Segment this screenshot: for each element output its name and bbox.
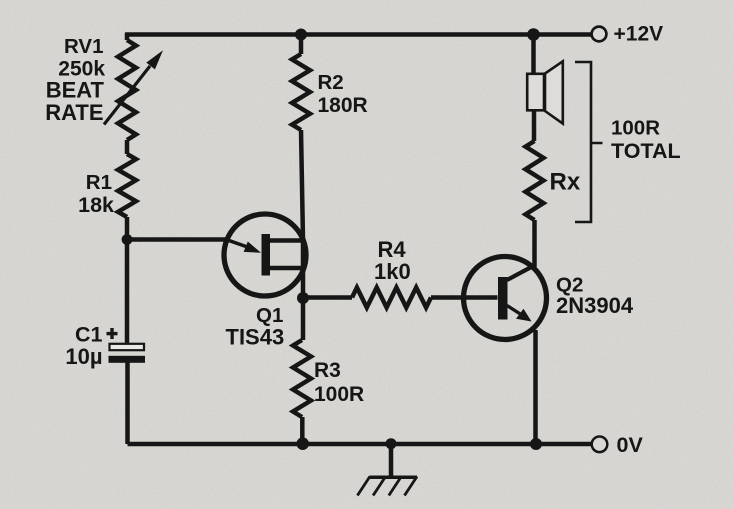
terminal 0V open circle: [592, 437, 608, 453]
svg-text:R1: R1: [86, 171, 112, 194]
resistor R2 zigzag: [292, 54, 310, 130]
wire between RV1 and R1: [125, 140, 130, 154]
wire R3 top stub: [301, 298, 306, 340]
svg-text:+12V: +12V: [614, 22, 664, 45]
node ground junction: [386, 438, 397, 449]
resistor R4 zigzag: [352, 288, 431, 308]
svg-text:180R: 180R: [318, 94, 368, 117]
terminal +12V open circle: [592, 27, 607, 42]
wire R1 to C1: [125, 217, 130, 344]
node A: Q1 base1 / R3 / R4 junction: [297, 292, 309, 304]
resistor R3 zigzag: [293, 340, 311, 417]
wire R3 bottom stub: [300, 417, 305, 444]
wire Q1 base1 lead: [270, 266, 304, 271]
node top rail speaker junction: [527, 28, 540, 41]
wire Q1 base2 lead: [270, 238, 304, 243]
svg-text:RV1: RV1: [64, 35, 104, 58]
node Q2 emitter rail junction: [530, 438, 542, 450]
svg-text:R2: R2: [318, 71, 344, 94]
wire R2 top stub: [299, 35, 304, 55]
svg-text:Rx: Rx: [550, 169, 581, 196]
ground symbol bar: [370, 476, 418, 480]
wire R2 down to node A: [301, 130, 303, 298]
wire Q1 emitter horizontal: [127, 237, 228, 242]
svg-text:10µ: 10µ: [65, 344, 102, 369]
svg-text:0V: 0V: [617, 433, 644, 457]
potentiometer RV1 zigzag: [118, 40, 136, 140]
transistor Q2 emitter arrowhead: [516, 309, 532, 322]
transistor Q2 base bar: [498, 277, 508, 320]
svg-text:R3: R3: [314, 359, 341, 382]
svg-text:RATE: RATE: [45, 100, 103, 125]
wire Q2 collector diagonal: [507, 265, 536, 281]
svg-text:1k0: 1k0: [374, 259, 411, 284]
svg-text:2N3904: 2N3904: [556, 293, 634, 318]
wire left column top corner: [125, 33, 130, 40]
wire bottom rail 0V: [128, 442, 592, 447]
svg-text:C1: C1: [75, 323, 103, 347]
node top rail R2 junction: [295, 29, 307, 41]
node R3 bottom rail junction: [296, 437, 309, 450]
svg-text:100R: 100R: [314, 383, 364, 406]
wire node A to R4: [303, 295, 352, 300]
wire Q2 emitter diagonal: [507, 306, 525, 318]
ground symbol hatches: [357, 477, 417, 496]
wire speaker branch top: [531, 35, 536, 76]
svg-text:TIS43: TIS43: [226, 325, 285, 350]
speaker LS1 driver rectangle: [527, 74, 544, 111]
wire Q1 emitter diagonal: [227, 240, 252, 249]
capacitor C1 polarity plus sign: [107, 332, 118, 335]
capacitor C1 plus plate (hollow): [110, 344, 145, 350]
wire ground stem: [389, 444, 394, 476]
transistor Q1 circle: [224, 214, 306, 296]
wire R4 to Q2 base: [431, 295, 498, 300]
node R1/C1/Q1-emitter junction: [122, 234, 133, 245]
transistor Q1 emitter arrowhead: [244, 242, 261, 253]
svg-text:TOTAL: TOTAL: [611, 139, 681, 163]
speaker LS1 cone: [545, 61, 563, 123]
wire C1 to bottom rail: [125, 363, 130, 445]
wire speaker to Rx: [532, 109, 537, 141]
potentiometer RV1 arrow shaft: [104, 66, 150, 125]
wire Q2 emitter to 0V rail: [533, 330, 538, 444]
svg-text:BEAT: BEAT: [46, 77, 105, 102]
capacitor C1 negative plate (solid): [109, 356, 146, 363]
transistor Q2 circle: [464, 257, 547, 340]
wire top rail +12V: [125, 32, 592, 37]
transistor Q1 base bar: [262, 234, 271, 276]
resistor R1 zigzag: [118, 154, 136, 217]
potentiometer RV1 arrowhead: [146, 50, 163, 69]
svg-text:Q1: Q1: [256, 304, 283, 327]
svg-text:100R: 100R: [611, 117, 660, 140]
resistor Rx zigzag: [526, 141, 544, 220]
wire Rx to Q2 collector: [532, 220, 537, 266]
svg-text:18k: 18k: [78, 193, 114, 217]
bracket 100R total: [575, 62, 603, 222]
